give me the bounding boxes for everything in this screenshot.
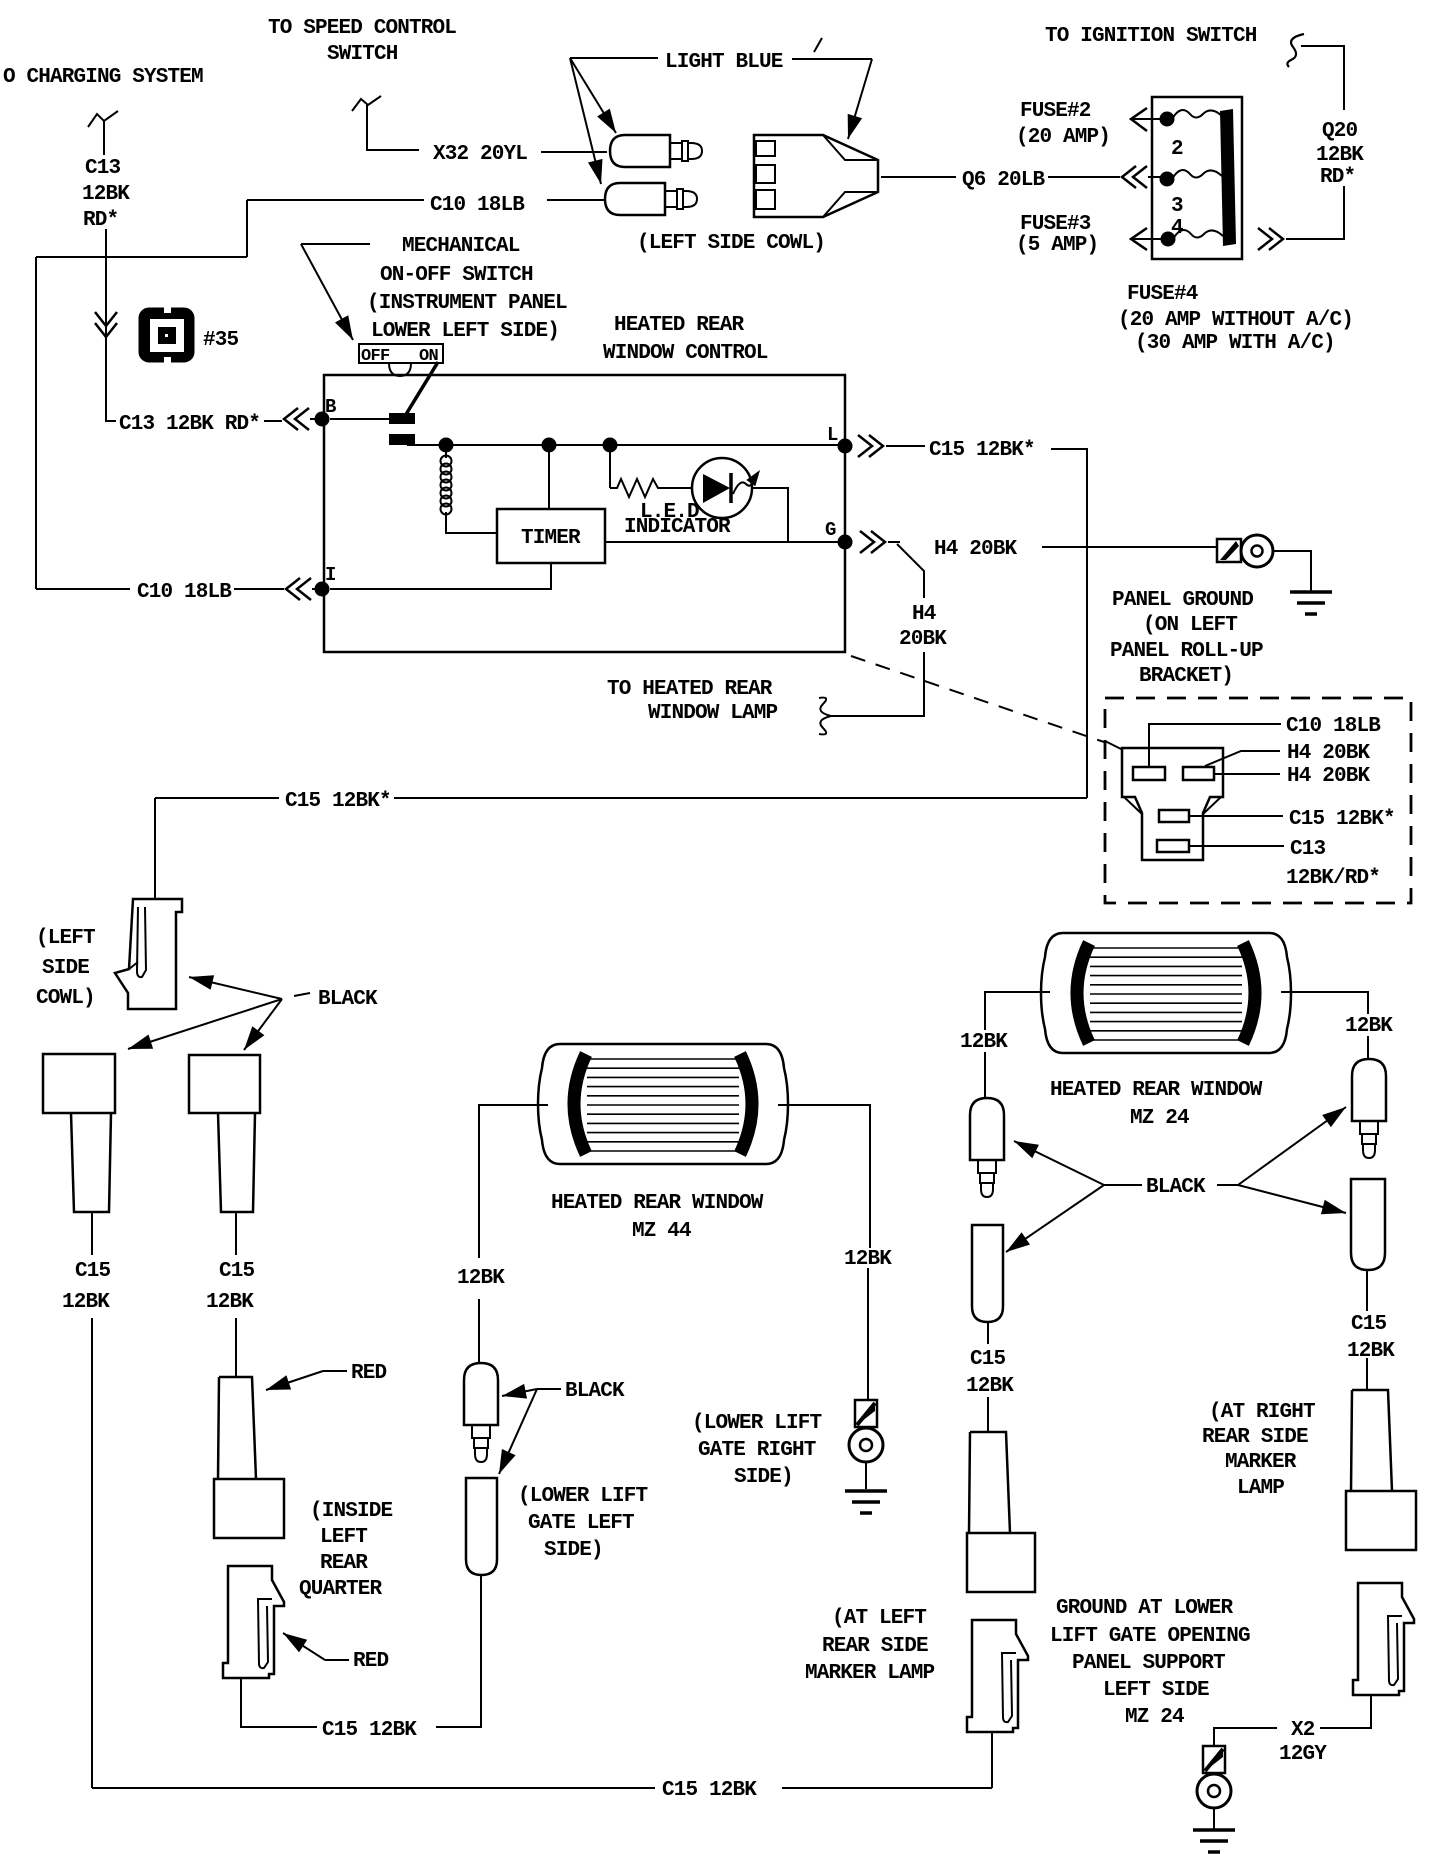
svg-text:L: L — [827, 424, 838, 446]
svg-text:12BK: 12BK — [1345, 1015, 1393, 1038]
relay coil — [445, 452, 447, 458]
wire socket down — [987, 1322, 989, 1344]
plug B (black, right) — [189, 1055, 260, 1113]
svg-text:12BK: 12BK — [844, 1248, 892, 1271]
wire timer bottom to I — [330, 563, 551, 589]
svg-text:(ON LEFT: (ON LEFT — [1143, 614, 1237, 637]
ground symbol (panel) — [1290, 590, 1332, 594]
dashed detail box — [1105, 698, 1411, 903]
break tick — [814, 38, 822, 52]
svg-text:PANEL GROUND: PANEL GROUND — [1112, 589, 1253, 612]
svg-text:H4: H4 — [912, 603, 936, 626]
svg-text:C10 18LB: C10 18LB — [137, 581, 232, 604]
svg-text:HEATED REAR WINDOW: HEATED REAR WINDOW — [1050, 1079, 1263, 1102]
in-arrow chevrons at fuse 3 — [1122, 166, 1147, 188]
wire diagonal to lamp drop — [897, 544, 924, 598]
wire H4 to panel ground eyelet — [1042, 546, 1216, 548]
out-arrow chevrons down on C13 wire — [95, 312, 117, 337]
wire C13 12BK RD* vertical — [105, 229, 107, 414]
pin C13 12BK/RD* — [1157, 840, 1189, 852]
svg-text:C15: C15 — [1351, 1313, 1387, 1336]
svg-text:LEFT SIDE: LEFT SIDE — [1103, 1679, 1209, 1702]
break symbol (ignition) — [1287, 34, 1304, 67]
arrow out fuse 2 — [1131, 108, 1147, 131]
svg-text:GATE LEFT: GATE LEFT — [528, 1512, 634, 1535]
wire C10 18LB: left vertical — [35, 257, 37, 589]
marker lamp plug (left) — [970, 1432, 1010, 1533]
svg-text:C15: C15 — [219, 1260, 255, 1283]
svg-text:RED: RED — [351, 1362, 387, 1385]
svg-text:QUARTER: QUARTER — [299, 1578, 383, 1601]
out-arrow chevrons fuse 4 to ignition — [1258, 228, 1283, 250]
svg-text:HEATED REAR: HEATED REAR — [614, 314, 745, 337]
arrow RED to plug — [266, 1371, 323, 1390]
svg-text:MARKER: MARKER — [1225, 1451, 1297, 1474]
svg-text:GATE RIGHT: GATE RIGHT — [698, 1439, 816, 1462]
svg-text:SIDE): SIDE) — [544, 1539, 603, 1562]
wire main bus inside control — [407, 444, 845, 446]
svg-text:(LEFT SIDE COWL): (LEFT SIDE COWL) — [637, 232, 825, 255]
fuse 2 terminal dot — [1160, 112, 1175, 127]
svg-text:BLACK: BLACK — [318, 988, 378, 1011]
wire Q20 12BK RD* from ignition — [1301, 46, 1344, 110]
connector (left side cowl, rear) — [115, 899, 182, 1009]
wire plug A down — [91, 1212, 93, 1255]
svg-text:H4 20BK: H4 20BK — [934, 538, 1018, 561]
svg-text:I: I — [325, 564, 336, 586]
wire LED to G bus — [752, 488, 788, 542]
svg-text:WINDOW LAMP: WINDOW LAMP — [648, 702, 778, 725]
wire to right bulb — [1367, 1036, 1369, 1059]
wire Q6 label to fuse chevrons — [1048, 176, 1120, 178]
wire junction3 to resistor — [609, 452, 611, 488]
svg-text:C10 18LB: C10 18LB — [1286, 715, 1381, 738]
svg-text:X32 20YL: X32 20YL — [433, 143, 527, 166]
svg-text:TO SPEED CONTROL: TO SPEED CONTROL — [268, 17, 456, 40]
svg-text:C13: C13 — [1290, 838, 1326, 861]
arrow BLACK to cowl connector — [189, 977, 282, 999]
svg-text:(AT LEFT: (AT LEFT — [832, 1607, 926, 1630]
svg-text:INDICATOR: INDICATOR — [624, 516, 731, 539]
svg-text:B: B — [325, 396, 336, 418]
svg-text:C10 18LB: C10 18LB — [430, 194, 525, 217]
off-page break symbol (charging system) — [88, 111, 118, 128]
wire C15 down to cowl connector — [154, 798, 156, 899]
leader line right of LIGHT BLUE — [792, 58, 872, 60]
svg-text:TO HEATED REAR: TO HEATED REAR — [607, 678, 773, 701]
out-arrow chevrons at G — [860, 531, 885, 553]
svg-text:MARKER LAMP: MARKER LAMP — [805, 1662, 935, 1685]
svg-text:C15 12BK*: C15 12BK* — [285, 790, 391, 813]
wire Q20 lower segment — [1288, 186, 1344, 239]
svg-text:FUSE#4: FUSE#4 — [1127, 283, 1198, 306]
socket plug (MZ24 right) — [1351, 1179, 1385, 1270]
terminal G dot — [838, 535, 853, 550]
in-arrow chevrons at terminal I — [286, 578, 311, 600]
connector detail body — [1122, 748, 1223, 860]
svg-text:(LOWER LIFT: (LOWER LIFT — [692, 1412, 822, 1435]
pin H4 20BK — [1183, 767, 1214, 780]
svg-text:C15: C15 — [970, 1348, 1006, 1371]
svg-text:BRACKET): BRACKET) — [1139, 665, 1233, 688]
ground eyelet (X2) — [1203, 1746, 1225, 1773]
marker lamp plug (right) — [1352, 1390, 1392, 1491]
socket plug (MZ24 left) — [972, 1225, 1003, 1322]
switch lever — [405, 362, 438, 416]
LED arrow — [733, 474, 757, 494]
svg-text:C15 12BK: C15 12BK — [322, 1719, 417, 1742]
svg-text:2: 2 — [1171, 138, 1183, 161]
heated rear window control box — [324, 375, 845, 652]
arrow BLACK to right bulb — [1238, 1107, 1346, 1185]
svg-text:(20 AMP WITHOUT A/C): (20 AMP WITHOUT A/C) — [1118, 309, 1353, 332]
latch connector (right rear marker) — [1353, 1583, 1414, 1695]
arrow RED to latch connector — [283, 1633, 325, 1660]
wire C15 12BK* to right corner — [1051, 449, 1087, 798]
svg-text:RD*: RD* — [83, 209, 118, 232]
arrow BLACK to bulb — [502, 1389, 537, 1396]
svg-text:MZ 24: MZ 24 — [1125, 1706, 1184, 1729]
switch contact bar lower — [389, 434, 415, 445]
pin C15 12BK* — [1159, 810, 1189, 822]
svg-text:FUSE#2: FUSE#2 — [1020, 100, 1091, 123]
wire C10 18LB to label (top row) — [247, 199, 424, 201]
svg-text:C15 12BK*: C15 12BK* — [1289, 808, 1395, 831]
svg-text:3: 3 — [1171, 195, 1183, 218]
in-arrow chevrons at terminal B — [284, 408, 309, 430]
wire label to I chevrons — [234, 588, 284, 590]
wire down to lift gate ground — [867, 1268, 869, 1400]
svg-text:12BK: 12BK — [62, 1291, 110, 1314]
wire red connector down — [241, 1679, 317, 1727]
wire to right marker plug — [1366, 1358, 1368, 1390]
svg-text:LIFT GATE OPENING: LIFT GATE OPENING — [1050, 1625, 1250, 1648]
wire plug B to red plug — [235, 1318, 237, 1377]
svg-text:OFF: OFF — [361, 347, 390, 366]
arrow BLACK to plug B — [244, 999, 282, 1050]
bulb terminal (MZ24 right) — [1352, 1059, 1386, 1121]
switch pivot notch — [389, 363, 411, 376]
fuse 4 terminal dot — [1161, 232, 1176, 247]
wire C15 12BK* horizontal run — [394, 797, 1087, 799]
off-page break symbol (speed control) — [352, 96, 381, 111]
arrow LIGHT BLUE to cowl connector — [848, 59, 872, 139]
latch connector (left rear marker) — [967, 1620, 1028, 1732]
wire latch to bottom run — [991, 1732, 993, 1788]
svg-text:X2: X2 — [1291, 1719, 1315, 1742]
svg-text:C13: C13 — [85, 157, 121, 180]
connector badge #35 — [140, 309, 193, 361]
terminal B dot — [315, 412, 330, 427]
svg-text:C13 12BK RD*: C13 12BK RD* — [119, 413, 260, 436]
LED indicator circle — [692, 458, 752, 518]
arrow BLACK to socket — [499, 1389, 537, 1474]
LED diode symbol — [703, 474, 730, 503]
wire MZ24 right — [1281, 992, 1368, 1014]
red plug (inside left rear quarter) — [219, 1377, 256, 1479]
wire plug A long down — [91, 1318, 93, 1788]
svg-text:12BK: 12BK — [82, 183, 130, 206]
switch contact bar upper — [389, 413, 415, 424]
pin C10 18LB — [1133, 767, 1165, 780]
svg-text:(5 AMP): (5 AMP) — [1016, 234, 1098, 257]
svg-text:SWITCH: SWITCH — [327, 43, 398, 66]
bulb terminal C10 (light blue) — [605, 183, 665, 215]
wire pin3 to label C15 12BK* — [1189, 815, 1283, 817]
junction dot 2 — [542, 438, 557, 453]
svg-text:4: 4 — [1171, 217, 1183, 240]
fuse bus bar — [1220, 109, 1236, 246]
svg-text:12BK: 12BK — [1316, 144, 1364, 167]
junction dot 1 — [439, 438, 454, 453]
svg-text:C15: C15 — [75, 1260, 111, 1283]
svg-text:LAMP: LAMP — [1237, 1477, 1284, 1500]
wire C13 12BK RD* vertical upper — [103, 124, 105, 155]
resistor (LED series) — [610, 479, 691, 497]
svg-text:GROUND AT LOWER: GROUND AT LOWER — [1056, 1597, 1234, 1620]
socket plug (lower lift gate left side) — [466, 1478, 497, 1575]
leader line left of LIGHT BLUE — [570, 57, 658, 59]
arrow BLACK to plug A — [128, 999, 282, 1049]
heated rear window MZ 24 — [1041, 933, 1291, 1053]
wire C10 18LB: riser to label row — [246, 200, 248, 257]
bulb terminal (MZ24 left) — [970, 1098, 1004, 1160]
svg-text:BLACK: BLACK — [565, 1380, 625, 1403]
wire C15 12BK bottom run — [92, 1787, 655, 1789]
svg-text:12BK: 12BK — [457, 1267, 505, 1290]
svg-text:C15 12BK: C15 12BK — [662, 1779, 757, 1802]
wire pin2 right to label H4 20BK — [1214, 773, 1280, 775]
out-arrow chevrons at L — [858, 435, 883, 457]
svg-text:(INSTRUMENT PANEL: (INSTRUMENT PANEL — [367, 292, 567, 315]
arrow BLACK to right socket — [1238, 1185, 1346, 1213]
svg-text:LOWER LEFT SIDE): LOWER LEFT SIDE) — [371, 320, 559, 343]
wire C10 18LB lower horizontal — [36, 588, 130, 590]
svg-text:FUSE#3: FUSE#3 — [1020, 213, 1091, 236]
fuse 4 element — [1173, 230, 1223, 239]
svg-text:HEATED REAR WINDOW: HEATED REAR WINDOW — [551, 1192, 764, 1215]
wire timer to G — [605, 541, 845, 543]
svg-text:#35: #35 — [203, 329, 239, 352]
wire label to B chevrons — [264, 420, 282, 422]
svg-text:RED: RED — [353, 1650, 389, 1673]
svg-text:ON-OFF SWITCH: ON-OFF SWITCH — [380, 264, 533, 287]
wire latch down to X2 — [1320, 1694, 1371, 1728]
svg-text:COWL): COWL) — [36, 987, 95, 1010]
wire coil to timer — [446, 512, 497, 533]
arrow to on-off switch — [301, 243, 370, 245]
wire eyelet to ground — [1273, 551, 1311, 591]
svg-text:REAR SIDE: REAR SIDE — [822, 1635, 928, 1658]
wire X2 to ground — [1214, 1728, 1277, 1746]
svg-text:REAR: REAR — [320, 1552, 368, 1575]
arrow out fuse 4 — [1131, 228, 1147, 250]
svg-text:PANEL ROLL-UP: PANEL ROLL-UP — [1110, 640, 1263, 663]
wire Q6 20LB from connector — [881, 176, 956, 178]
svg-text:H4 20BK: H4 20BK — [1287, 742, 1371, 765]
svg-text:LEFT: LEFT — [320, 1526, 367, 1549]
wire MZ44 right — [778, 1105, 870, 1248]
svg-text:12BK/RD*: 12BK/RD* — [1286, 867, 1380, 890]
svg-text:O CHARGING SYSTEM: O CHARGING SYSTEM — [3, 66, 203, 89]
svg-text:BLACK: BLACK — [1146, 1176, 1206, 1199]
ground symbol (lift gate right) — [845, 1489, 887, 1493]
terminal L dot — [838, 439, 853, 454]
wire 12BK to bulb — [478, 1299, 480, 1363]
svg-text:TO IGNITION SWITCH: TO IGNITION SWITCH — [1045, 25, 1257, 48]
ground eyelet (lower lift gate right side) — [855, 1400, 877, 1427]
plug A (black, left) — [43, 1054, 115, 1113]
panel ground eyelet — [1217, 539, 1241, 562]
fuse 2 element — [1172, 110, 1222, 119]
svg-text:(INSIDE: (INSIDE — [310, 1500, 393, 1523]
wire stub C13 to label — [106, 414, 116, 421]
svg-text:MZ 24: MZ 24 — [1130, 1107, 1189, 1130]
svg-text:H4 20BK: H4 20BK — [1287, 765, 1371, 788]
on-off switch box OFF ON — [359, 344, 443, 363]
wire label to bulb — [547, 199, 606, 201]
wire socket down — [1366, 1270, 1368, 1311]
svg-text:(LOWER LIFT: (LOWER LIFT — [518, 1485, 648, 1508]
svg-text:RD*: RD* — [1320, 166, 1355, 189]
wire eyelet to ground — [1213, 1808, 1215, 1829]
wire pin4 to label C13 — [1189, 845, 1284, 847]
dashed leader to connector detail — [851, 656, 1104, 742]
svg-text:12BK: 12BK — [206, 1291, 254, 1314]
svg-text:Q20: Q20 — [1322, 120, 1358, 143]
wire MZ44 left — [479, 1105, 548, 1258]
heated rear window MZ 44 — [538, 1044, 788, 1164]
svg-text:MZ 44: MZ 44 — [632, 1220, 691, 1243]
svg-text:(20 AMP): (20 AMP) — [1016, 126, 1110, 149]
wire X32 label to bulb — [541, 151, 607, 153]
svg-text:C15 12BK*: C15 12BK* — [929, 439, 1035, 462]
fuse 3 terminal dot — [1160, 172, 1175, 187]
wire into I — [312, 588, 322, 590]
junction dot 3 — [603, 438, 618, 453]
wire C10 18LB: upper horizontal — [36, 256, 247, 258]
arrow BLACK to left bulb — [1014, 1141, 1104, 1185]
bulb terminal (lower lift gate left) — [464, 1363, 498, 1425]
svg-text:WINDOW CONTROL: WINDOW CONTROL — [603, 342, 768, 365]
svg-text:12GY: 12GY — [1279, 1743, 1327, 1766]
svg-text:(LEFT: (LEFT — [36, 927, 95, 950]
svg-text:12BK: 12BK — [966, 1375, 1014, 1398]
svg-text:Q6 20LB: Q6 20LB — [962, 169, 1046, 192]
timer box — [497, 509, 605, 563]
wire label to marker connector — [782, 1787, 992, 1789]
wire eyelet to ground — [865, 1462, 867, 1489]
arrow LIGHT BLUE to bulb 1 — [570, 58, 616, 133]
fuse 3 element — [1172, 170, 1222, 179]
connector (left side cowl) 3-way — [754, 135, 878, 217]
wire B to contact — [330, 418, 389, 420]
svg-text:TIMER: TIMER — [521, 527, 581, 550]
svg-text:12BK: 12BK — [960, 1031, 1008, 1054]
wire label to lift gate plug — [436, 1575, 481, 1727]
svg-text:20BK: 20BK — [899, 628, 947, 651]
wire lamp drop lower — [831, 652, 924, 716]
svg-text:MECHANICAL: MECHANICAL — [402, 235, 520, 258]
svg-text:(30 AMP WITH A/C): (30 AMP WITH A/C) — [1135, 332, 1335, 355]
svg-text:SIDE): SIDE) — [734, 1466, 793, 1489]
wire pin2 to label H4 20BK — [1205, 751, 1280, 766]
svg-text:G: G — [825, 519, 836, 541]
svg-text:SIDE: SIDE — [42, 957, 89, 980]
wire junction2 to timer top — [548, 452, 550, 509]
arrow LIGHT BLUE to bulb 2 — [570, 58, 601, 184]
bulb terminal X32 (light blue) — [610, 135, 670, 167]
arrow BLACK to left socket — [1006, 1185, 1104, 1252]
svg-text:LIGHT BLUE: LIGHT BLUE — [665, 51, 783, 74]
ground symbol (X2) — [1193, 1828, 1235, 1832]
svg-text:PANEL SUPPORT: PANEL SUPPORT — [1072, 1652, 1225, 1675]
leader into connector — [1105, 741, 1123, 750]
wire to left bulb — [984, 1052, 986, 1098]
wire MZ24 left — [985, 992, 1050, 1030]
svg-text:(AT RIGHT: (AT RIGHT — [1209, 1401, 1315, 1424]
terminal I dot — [315, 582, 330, 597]
wire to marker lamp plug — [987, 1397, 989, 1432]
fuse block outline — [1152, 97, 1242, 259]
break squiggle (window lamp) — [819, 698, 831, 735]
wire plug B down — [235, 1212, 237, 1255]
wire X32 20YL riser — [367, 104, 419, 150]
svg-text:12BK: 12BK — [1347, 1340, 1395, 1363]
svg-text:REAR SIDE: REAR SIDE — [1202, 1426, 1308, 1449]
red latch connector — [223, 1566, 284, 1678]
wire pin1 to label C10 18LB — [1149, 724, 1281, 767]
wire into B — [310, 418, 322, 420]
